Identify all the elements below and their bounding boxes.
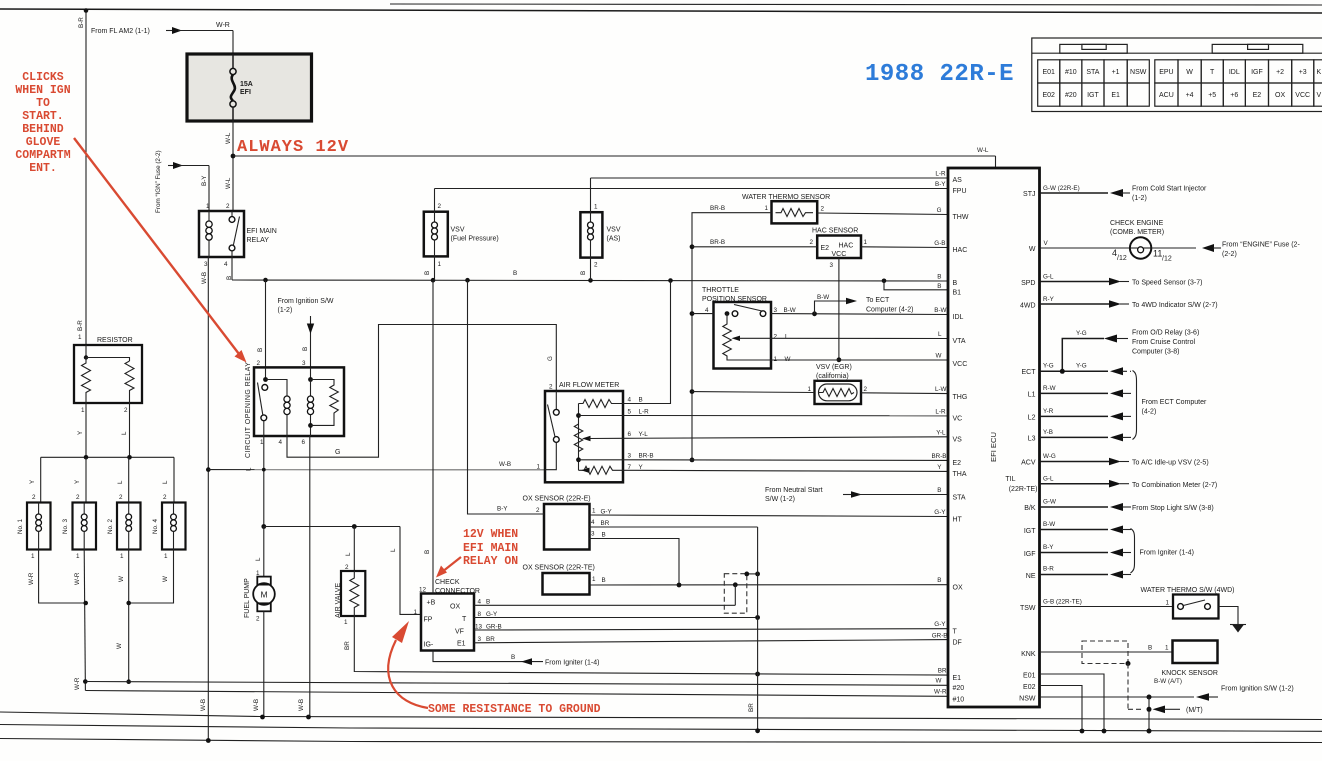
- valve AIR VALVE: [335, 527, 365, 627]
- wire B OX-TE pin1 to ECU OX: [590, 582, 949, 587]
- svg-text:1: 1: [120, 553, 124, 560]
- wire W-L below fuse: [225, 121, 233, 211]
- svg-text:THA: THA: [953, 471, 967, 478]
- svg-text:2: 2: [124, 407, 128, 414]
- svg-text:BR-B: BR-B: [931, 453, 946, 460]
- svg-text:SPD: SPD: [1021, 280, 1035, 287]
- svg-text:From Ignition S/W: From Ignition S/W: [278, 298, 334, 305]
- svg-text:VS: VS: [953, 437, 963, 444]
- svg-text:From FL AM2 (1-1): From FL AM2 (1-1): [91, 28, 150, 35]
- svg-text:L2: L2: [1028, 415, 1036, 422]
- svg-text:L-R: L-R: [935, 409, 946, 416]
- wire L-R VSV AS pin1 to ECU AS: [591, 177, 949, 179]
- svg-text:W-B: W-B: [253, 699, 260, 711]
- svg-text:DF: DF: [953, 640, 962, 647]
- wire W throttle pin1 to ECU VCC: [771, 359, 948, 361]
- svg-text:FUEL PUMP: FUEL PUMP: [244, 578, 251, 618]
- svg-text:E2: E2: [821, 245, 830, 252]
- svg-text:3: 3: [302, 360, 306, 367]
- svg-text:RESISTOR: RESISTOR: [97, 337, 133, 344]
- svg-text:1988 22R-E: 1988 22R-E: [865, 61, 1014, 88]
- svg-text:W-L: W-L: [977, 147, 989, 154]
- svg-text:B: B: [937, 274, 941, 281]
- svg-text:1: 1: [1165, 645, 1169, 652]
- label 12V WHEN EFI MAIN RELAY ON: [436, 528, 518, 578]
- svg-text:B-W: B-W: [1043, 521, 1055, 528]
- svg-text:From “ENGINE” Fuse (2-: From “ENGINE” Fuse (2-: [1222, 242, 1300, 249]
- svg-text:SOME RESISTANCE TO GROUND: SOME RESISTANCE TO GROUND: [428, 703, 601, 716]
- pump FUEL PUMP: [244, 527, 275, 720]
- wire SPD To Speed Sensor: [1040, 274, 1203, 287]
- svg-text:4: 4: [224, 261, 228, 268]
- svg-text:No. 1: No. 1: [17, 518, 24, 534]
- svg-text:2: 2: [257, 360, 261, 367]
- svg-text:Y: Y: [77, 430, 84, 435]
- sensor WATER THERMO SENSOR: [742, 194, 830, 223]
- fuse box 15A EFI: [187, 54, 312, 121]
- ECU left wire colour labels: [931, 171, 947, 696]
- svg-text:#10: #10: [1065, 69, 1077, 76]
- svg-text:2: 2: [821, 206, 825, 213]
- wire B1 jog to ECU: [884, 281, 948, 290]
- svg-text:2: 2: [76, 494, 80, 501]
- svg-text:3: 3: [774, 307, 778, 314]
- svg-text:1: 1: [765, 205, 769, 212]
- svg-text:2: 2: [549, 384, 553, 391]
- svg-text:+4: +4: [1186, 92, 1194, 99]
- svg-text:+3: +3: [1299, 69, 1307, 76]
- svg-text:T: T: [953, 629, 958, 636]
- svg-text:VCC: VCC: [1295, 92, 1310, 99]
- wire B from relay pin4: [231, 257, 233, 280]
- svg-text:HT: HT: [953, 517, 963, 524]
- svg-text:B-Y: B-Y: [935, 181, 946, 188]
- label ALWAYS 12V: [237, 138, 349, 157]
- svg-text:G-Y: G-Y: [601, 509, 613, 516]
- svg-text:B: B: [486, 599, 490, 606]
- svg-text:VC: VC: [953, 416, 963, 423]
- svg-text:W: W: [118, 576, 125, 582]
- svg-text:WATER THERMO SENSOR: WATER THERMO SENSOR: [742, 194, 830, 201]
- svg-text:G-L: G-L: [1043, 476, 1054, 483]
- svg-text:S/W (1-2): S/W (1-2): [765, 496, 795, 503]
- svg-text:3: 3: [478, 636, 482, 643]
- svg-text:1: 1: [31, 553, 35, 560]
- wire L2 Y-R: [1040, 408, 1132, 420]
- svg-text:Computer (4-2): Computer (4-2): [866, 307, 913, 314]
- svg-text:1: 1: [206, 203, 210, 210]
- svg-text:EFI MAIN: EFI MAIN: [247, 228, 277, 235]
- svg-text:4: 4: [591, 519, 595, 526]
- svg-text:B: B: [580, 271, 587, 275]
- wire L branch to air valve and check connector: [264, 524, 421, 614]
- svg-text:L: L: [785, 334, 789, 341]
- svg-text:6: 6: [628, 431, 632, 438]
- svg-text:2: 2: [163, 494, 167, 501]
- valve VSV (AS): [580, 178, 621, 280]
- svg-text:(4-2): (4-2): [1142, 409, 1157, 416]
- svg-text:2: 2: [864, 386, 868, 393]
- svg-text:EFI MAIN: EFI MAIN: [463, 542, 518, 555]
- connector dashed option box: [724, 572, 760, 614]
- svg-text:CHECK: CHECK: [435, 579, 460, 586]
- svg-text:L: L: [345, 552, 352, 556]
- svg-text:Y-L: Y-L: [639, 431, 649, 438]
- svg-text:B-R: B-R: [78, 17, 85, 28]
- svg-text:2: 2: [810, 239, 814, 246]
- wire B/K From Stop Light: [1040, 499, 1214, 513]
- wire B-Y to OX sensor pin2: [468, 280, 545, 514]
- svg-text:2: 2: [32, 494, 36, 501]
- svg-text:W: W: [1186, 69, 1193, 76]
- wire B-Y VSV FP pin2 to ECU FPU: [435, 188, 949, 190]
- svg-text:E02: E02: [1042, 92, 1055, 99]
- svg-text:1: 1: [594, 204, 598, 211]
- svg-text:#10: #10: [953, 697, 965, 704]
- connector CHECK CONNECTOR: [414, 579, 502, 651]
- sensor OX SENSOR (22R-TE): [523, 565, 606, 595]
- svg-text:M: M: [261, 590, 268, 600]
- wire BR OX pin4: [590, 526, 758, 528]
- svg-text:1: 1: [864, 239, 868, 246]
- svg-text:B-Y: B-Y: [201, 175, 208, 186]
- svg-text:IGF: IGF: [1024, 551, 1036, 558]
- svg-text:Y-R: Y-R: [1043, 408, 1054, 415]
- svg-text:+2: +2: [1276, 69, 1284, 76]
- connector pinout table: [1032, 38, 1322, 112]
- svg-text:STA: STA: [953, 495, 966, 502]
- lamp CHECK ENGINE: [1040, 220, 1301, 263]
- svg-text:G: G: [547, 356, 554, 361]
- svg-text:HAC: HAC: [839, 243, 854, 250]
- svg-text:TO: TO: [36, 97, 50, 110]
- wire ACV To A/C Idle-up VSV: [1040, 453, 1209, 467]
- svg-text:1: 1: [537, 464, 541, 471]
- svg-text:WHEN IGN: WHEN IGN: [15, 84, 70, 97]
- svg-text:W-B: W-B: [201, 272, 208, 284]
- svg-text:3: 3: [830, 262, 834, 269]
- svg-text:B: B: [513, 270, 517, 277]
- svg-text:+5: +5: [1208, 92, 1216, 99]
- svg-text:2: 2: [119, 494, 123, 501]
- wire W-R to ECU #10: [85, 691, 948, 697]
- svg-text:L3: L3: [1028, 436, 1036, 443]
- svg-text:To Combination Meter (2-7): To Combination Meter (2-7): [1132, 482, 1217, 489]
- svg-text:To A/C Idle-up VSV (2-5): To A/C Idle-up VSV (2-5): [1132, 460, 1209, 467]
- svg-text:15A: 15A: [240, 81, 253, 88]
- wire TIL To Combination Meter: [1040, 476, 1218, 490]
- svg-text:ECT: ECT: [1022, 369, 1037, 376]
- wire G water thermo pin2 to ECU THW: [817, 213, 948, 215]
- svg-text:B: B: [602, 577, 606, 584]
- svg-text:/12: /12: [1117, 255, 1127, 262]
- svg-text:G-Y: G-Y: [934, 621, 946, 628]
- svg-text:1: 1: [81, 407, 85, 414]
- svg-text:HAC: HAC: [953, 247, 968, 254]
- svg-text:1: 1: [414, 609, 418, 616]
- svg-text:R-Y: R-Y: [1043, 296, 1055, 303]
- svg-text:L-R: L-R: [935, 171, 946, 178]
- svg-text:VTA: VTA: [953, 338, 966, 345]
- svg-text:G-W (22R-E): G-W (22R-E): [1043, 185, 1080, 192]
- svg-text:From Ignition S/W (1-2): From Ignition S/W (1-2): [1221, 686, 1294, 693]
- svg-text:Y: Y: [74, 479, 81, 484]
- svg-text:BR: BR: [601, 520, 610, 527]
- svg-text:(22R-TE): (22R-TE): [1009, 486, 1038, 493]
- svg-text:B: B: [302, 347, 309, 351]
- svg-text:To 4WD Indicator S/W (2-7): To 4WD Indicator S/W (2-7): [1132, 302, 1218, 309]
- bottom bus line B: [0, 725, 1322, 732]
- svg-text:START.: START.: [22, 110, 63, 123]
- svg-text:L1: L1: [1028, 392, 1036, 399]
- svg-text:4: 4: [705, 307, 709, 314]
- svg-text:STJ: STJ: [1023, 191, 1035, 198]
- svg-text:2: 2: [438, 203, 442, 210]
- svg-text:#20: #20: [1065, 92, 1077, 99]
- svg-text:W: W: [162, 576, 169, 582]
- svg-text:(1-2): (1-2): [1132, 195, 1147, 202]
- connector table cells group1: [1038, 60, 1150, 106]
- svg-text:AS: AS: [953, 177, 963, 184]
- svg-text:FPU: FPU: [953, 188, 967, 195]
- svg-text:B-W (A/T): B-W (A/T): [1154, 678, 1182, 685]
- wire Y AFM pin7 to ECU THA: [623, 470, 948, 471]
- svg-text:VCC: VCC: [832, 251, 847, 258]
- svg-text:Y-G: Y-G: [1043, 363, 1054, 370]
- wire 4WD To 4WD Indicator: [1040, 296, 1218, 309]
- svg-text:(AS): (AS): [607, 236, 621, 243]
- wire NSW From Ignition S/W: [1040, 678, 1294, 701]
- svg-text:Computer (3-8): Computer (3-8): [1132, 349, 1179, 356]
- wire L throttle pin2 to ECU VTA: [771, 337, 948, 339]
- svg-text:EFI: EFI: [240, 89, 251, 96]
- injector feed bus: [29, 455, 174, 503]
- wire Y-G From O/D Relay branch: [1062, 330, 1199, 372]
- svg-text:3: 3: [591, 531, 595, 538]
- svg-text:From “IGN” Fuse (2-2): From “IGN” Fuse (2-2): [155, 150, 162, 213]
- svg-text:EPU: EPU: [1159, 69, 1173, 76]
- wire W-B horizontal to air flow meter: [208, 461, 545, 470]
- wire E01 BR: [1040, 674, 1107, 733]
- svg-text:B: B: [937, 283, 941, 290]
- svg-text:V: V: [1316, 92, 1321, 99]
- wire check IG- From Igniter: [433, 651, 599, 667]
- svg-text:W: W: [116, 643, 123, 649]
- relay EFI MAIN RELAY: [199, 211, 277, 284]
- svg-text:B: B: [953, 280, 958, 287]
- svg-text:1: 1: [1166, 600, 1170, 607]
- wire W to ECU #20: [85, 682, 948, 686]
- svg-text:G-B (22R-TE): G-B (22R-TE): [1043, 599, 1082, 606]
- svg-text:4WD: 4WD: [1020, 303, 1036, 310]
- svg-text:1: 1: [592, 508, 596, 515]
- meter AIR FLOW METER: [537, 382, 654, 482]
- label CLICKS WHEN IGN TO START: [15, 71, 246, 363]
- svg-text:OX: OX: [1275, 92, 1285, 99]
- svg-text:W: W: [1029, 246, 1036, 253]
- valve VSV (EGR): [808, 364, 868, 404]
- wire W-B long vertical from relay pin3: [200, 257, 211, 743]
- wire HAC pin1 G-B to ECU: [861, 246, 948, 249]
- svg-text:E1: E1: [953, 675, 962, 682]
- svg-text:1: 1: [164, 553, 168, 560]
- node To ECT Computer arrow: [815, 294, 914, 314]
- node W-L junction: [231, 154, 236, 159]
- svg-text:W-R: W-R: [216, 22, 230, 29]
- svg-text:BR: BR: [486, 636, 495, 643]
- svg-text:V: V: [1044, 240, 1049, 247]
- svg-text:W-R: W-R: [934, 689, 947, 696]
- sensor THROTTLE POSITION SENSOR: [692, 287, 796, 369]
- svg-text:E2: E2: [1253, 92, 1262, 99]
- svg-text:ACV: ACV: [1021, 460, 1036, 467]
- svg-text:KNOCK SENSOR: KNOCK SENSOR: [1162, 670, 1218, 677]
- svg-text:IGT: IGT: [1087, 92, 1099, 99]
- ECU right pin labels: [1005, 191, 1037, 703]
- svg-text:IG-: IG-: [424, 642, 434, 649]
- wire L from resistor pin2: [121, 403, 130, 457]
- svg-text:IDL: IDL: [953, 314, 964, 321]
- svg-text:EFI ECU: EFI ECU: [989, 432, 998, 462]
- svg-text:THROTTLE: THROTTLE: [702, 287, 739, 294]
- wire HAC pin3 VCC vertical: [837, 258, 842, 362]
- svg-text:OX: OX: [450, 604, 460, 611]
- svg-text:B-Y: B-Y: [1043, 544, 1054, 551]
- svg-text:4: 4: [279, 439, 283, 446]
- svg-text:W-L: W-L: [225, 177, 232, 189]
- svg-text:KNK: KNK: [1021, 651, 1036, 658]
- svg-text:(california): (california): [816, 373, 849, 380]
- svg-text:B: B: [1148, 645, 1152, 652]
- bracket From Igniter: [1131, 529, 1194, 574]
- svg-text:TSW: TSW: [1020, 605, 1036, 612]
- node From IGN fuse arrow: [155, 150, 209, 213]
- svg-text:T: T: [462, 616, 467, 623]
- wire E02 BR: [1040, 686, 1085, 734]
- svg-text:E01: E01: [1042, 69, 1055, 76]
- svg-text:L: L: [162, 480, 169, 484]
- wire W injector join: [116, 550, 174, 685]
- svg-text:TIL: TIL: [1005, 476, 1015, 483]
- svg-text:WATER THERMO S/W (4WD): WATER THERMO S/W (4WD): [1141, 587, 1235, 594]
- ground symbol: [1230, 625, 1246, 633]
- svg-text:B-R: B-R: [1043, 566, 1054, 573]
- wire B bus: [232, 270, 948, 283]
- svg-text:CLICKS: CLICKS: [22, 71, 64, 84]
- wire W-R injector join: [39, 550, 88, 691]
- wire check E1 to ECU DF: [474, 640, 948, 643]
- svg-text:OX SENSOR (22R-TE): OX SENSOR (22R-TE): [523, 565, 595, 572]
- svg-text:G-L: G-L: [1043, 274, 1054, 281]
- svg-text:W-L: W-L: [225, 132, 232, 144]
- svg-text:G: G: [335, 449, 340, 456]
- svg-text:L: L: [246, 467, 253, 471]
- svg-text:Y-G: Y-G: [1076, 330, 1087, 337]
- svg-text:+6: +6: [1230, 92, 1238, 99]
- svg-text:W-R: W-R: [74, 677, 81, 690]
- svg-text:B1: B1: [953, 290, 962, 297]
- svg-text:L: L: [390, 548, 397, 552]
- svg-text:VSV: VSV: [607, 227, 621, 234]
- switch WATER THERMO S/W (4WD): [1040, 587, 1239, 624]
- svg-text:Y-L: Y-L: [936, 430, 946, 437]
- svg-text:E1: E1: [1111, 92, 1120, 99]
- wire B AFM pin4 to B bus: [623, 281, 671, 404]
- connector table cells group2: [1155, 60, 1322, 106]
- svg-text:NE: NE: [1026, 573, 1036, 580]
- svg-text:No. 3: No. 3: [62, 518, 69, 534]
- node From Ignition S/W arrow: [278, 298, 334, 367]
- svg-text:W: W: [936, 678, 942, 685]
- svg-text:E02: E02: [1023, 684, 1036, 691]
- svg-text:+B: +B: [427, 600, 436, 607]
- svg-text:Y: Y: [29, 479, 36, 484]
- svg-text:12V WHEN: 12V WHEN: [463, 528, 518, 541]
- svg-text:W-B: W-B: [200, 699, 207, 711]
- svg-text:L: L: [117, 480, 124, 484]
- svg-text:No. 2: No. 2: [107, 518, 114, 534]
- svg-text:2: 2: [536, 507, 540, 514]
- svg-text:NSW: NSW: [1019, 696, 1036, 703]
- svg-text:Y: Y: [937, 464, 942, 471]
- injector No.1: [17, 503, 51, 550]
- svg-text:/12: /12: [1162, 256, 1172, 263]
- wire BR-B to VSV EGR pin1: [692, 391, 815, 394]
- svg-text:AIR FLOW METER: AIR FLOW METER: [559, 382, 619, 389]
- svg-text:2: 2: [256, 616, 260, 623]
- svg-text:2: 2: [226, 203, 230, 210]
- svg-text:G-Y: G-Y: [934, 509, 946, 516]
- svg-text:4: 4: [478, 599, 482, 606]
- svg-text:COMPARTM: COMPARTM: [15, 149, 70, 162]
- svg-text:1: 1: [438, 261, 442, 268]
- top border line upper: [390, 4, 1322, 5]
- wire L-W VSV EGR pin2 to ECU THG: [861, 392, 948, 395]
- svg-text:B/K: B/K: [1024, 505, 1036, 512]
- svg-text:E1: E1: [457, 641, 466, 648]
- wire B-W throttle pin3 to ECU IDL: [771, 311, 948, 316]
- svg-text:From Igniter (1-4): From Igniter (1-4): [1140, 550, 1194, 557]
- bottom bus line A (W-B ground): [0, 712, 1322, 720]
- svg-text:W-B: W-B: [298, 699, 305, 711]
- svg-text:OX SENSOR (22R-E): OX SENSOR (22R-E): [523, 496, 591, 503]
- svg-text:OX: OX: [953, 585, 963, 592]
- wire G from COR pin4: [287, 325, 556, 458]
- svg-text:1: 1: [76, 553, 80, 560]
- wire B to COR pin2: [257, 280, 310, 367]
- svg-text:4: 4: [628, 397, 632, 404]
- resistor block: [74, 337, 142, 414]
- svg-text:From Igniter (1-4): From Igniter (1-4): [545, 660, 599, 667]
- injector No.4: [152, 503, 186, 550]
- svg-text:VF: VF: [455, 629, 464, 636]
- svg-text:HAC SENSOR: HAC SENSOR: [812, 228, 858, 235]
- svg-text:G-B: G-B: [934, 240, 945, 247]
- wire IGT B-W: [1040, 521, 1132, 534]
- wire ECT Y-G: [1040, 363, 1132, 376]
- svg-text:#20: #20: [953, 685, 965, 692]
- svg-text:3: 3: [628, 453, 632, 460]
- svg-text:B: B: [424, 271, 431, 275]
- svg-text:Y-B: Y-B: [1043, 429, 1053, 436]
- wire W-R to fuse: [178, 22, 233, 54]
- node From FL AM2 arrow: [91, 27, 182, 35]
- label 1988 22R-E: [865, 61, 1014, 88]
- wire BR vertical from OX pin4: [755, 527, 760, 733]
- svg-text:1: 1: [78, 334, 82, 341]
- svg-text:VSV (EGR): VSV (EGR): [816, 364, 852, 371]
- svg-text:W-R: W-R: [28, 572, 35, 585]
